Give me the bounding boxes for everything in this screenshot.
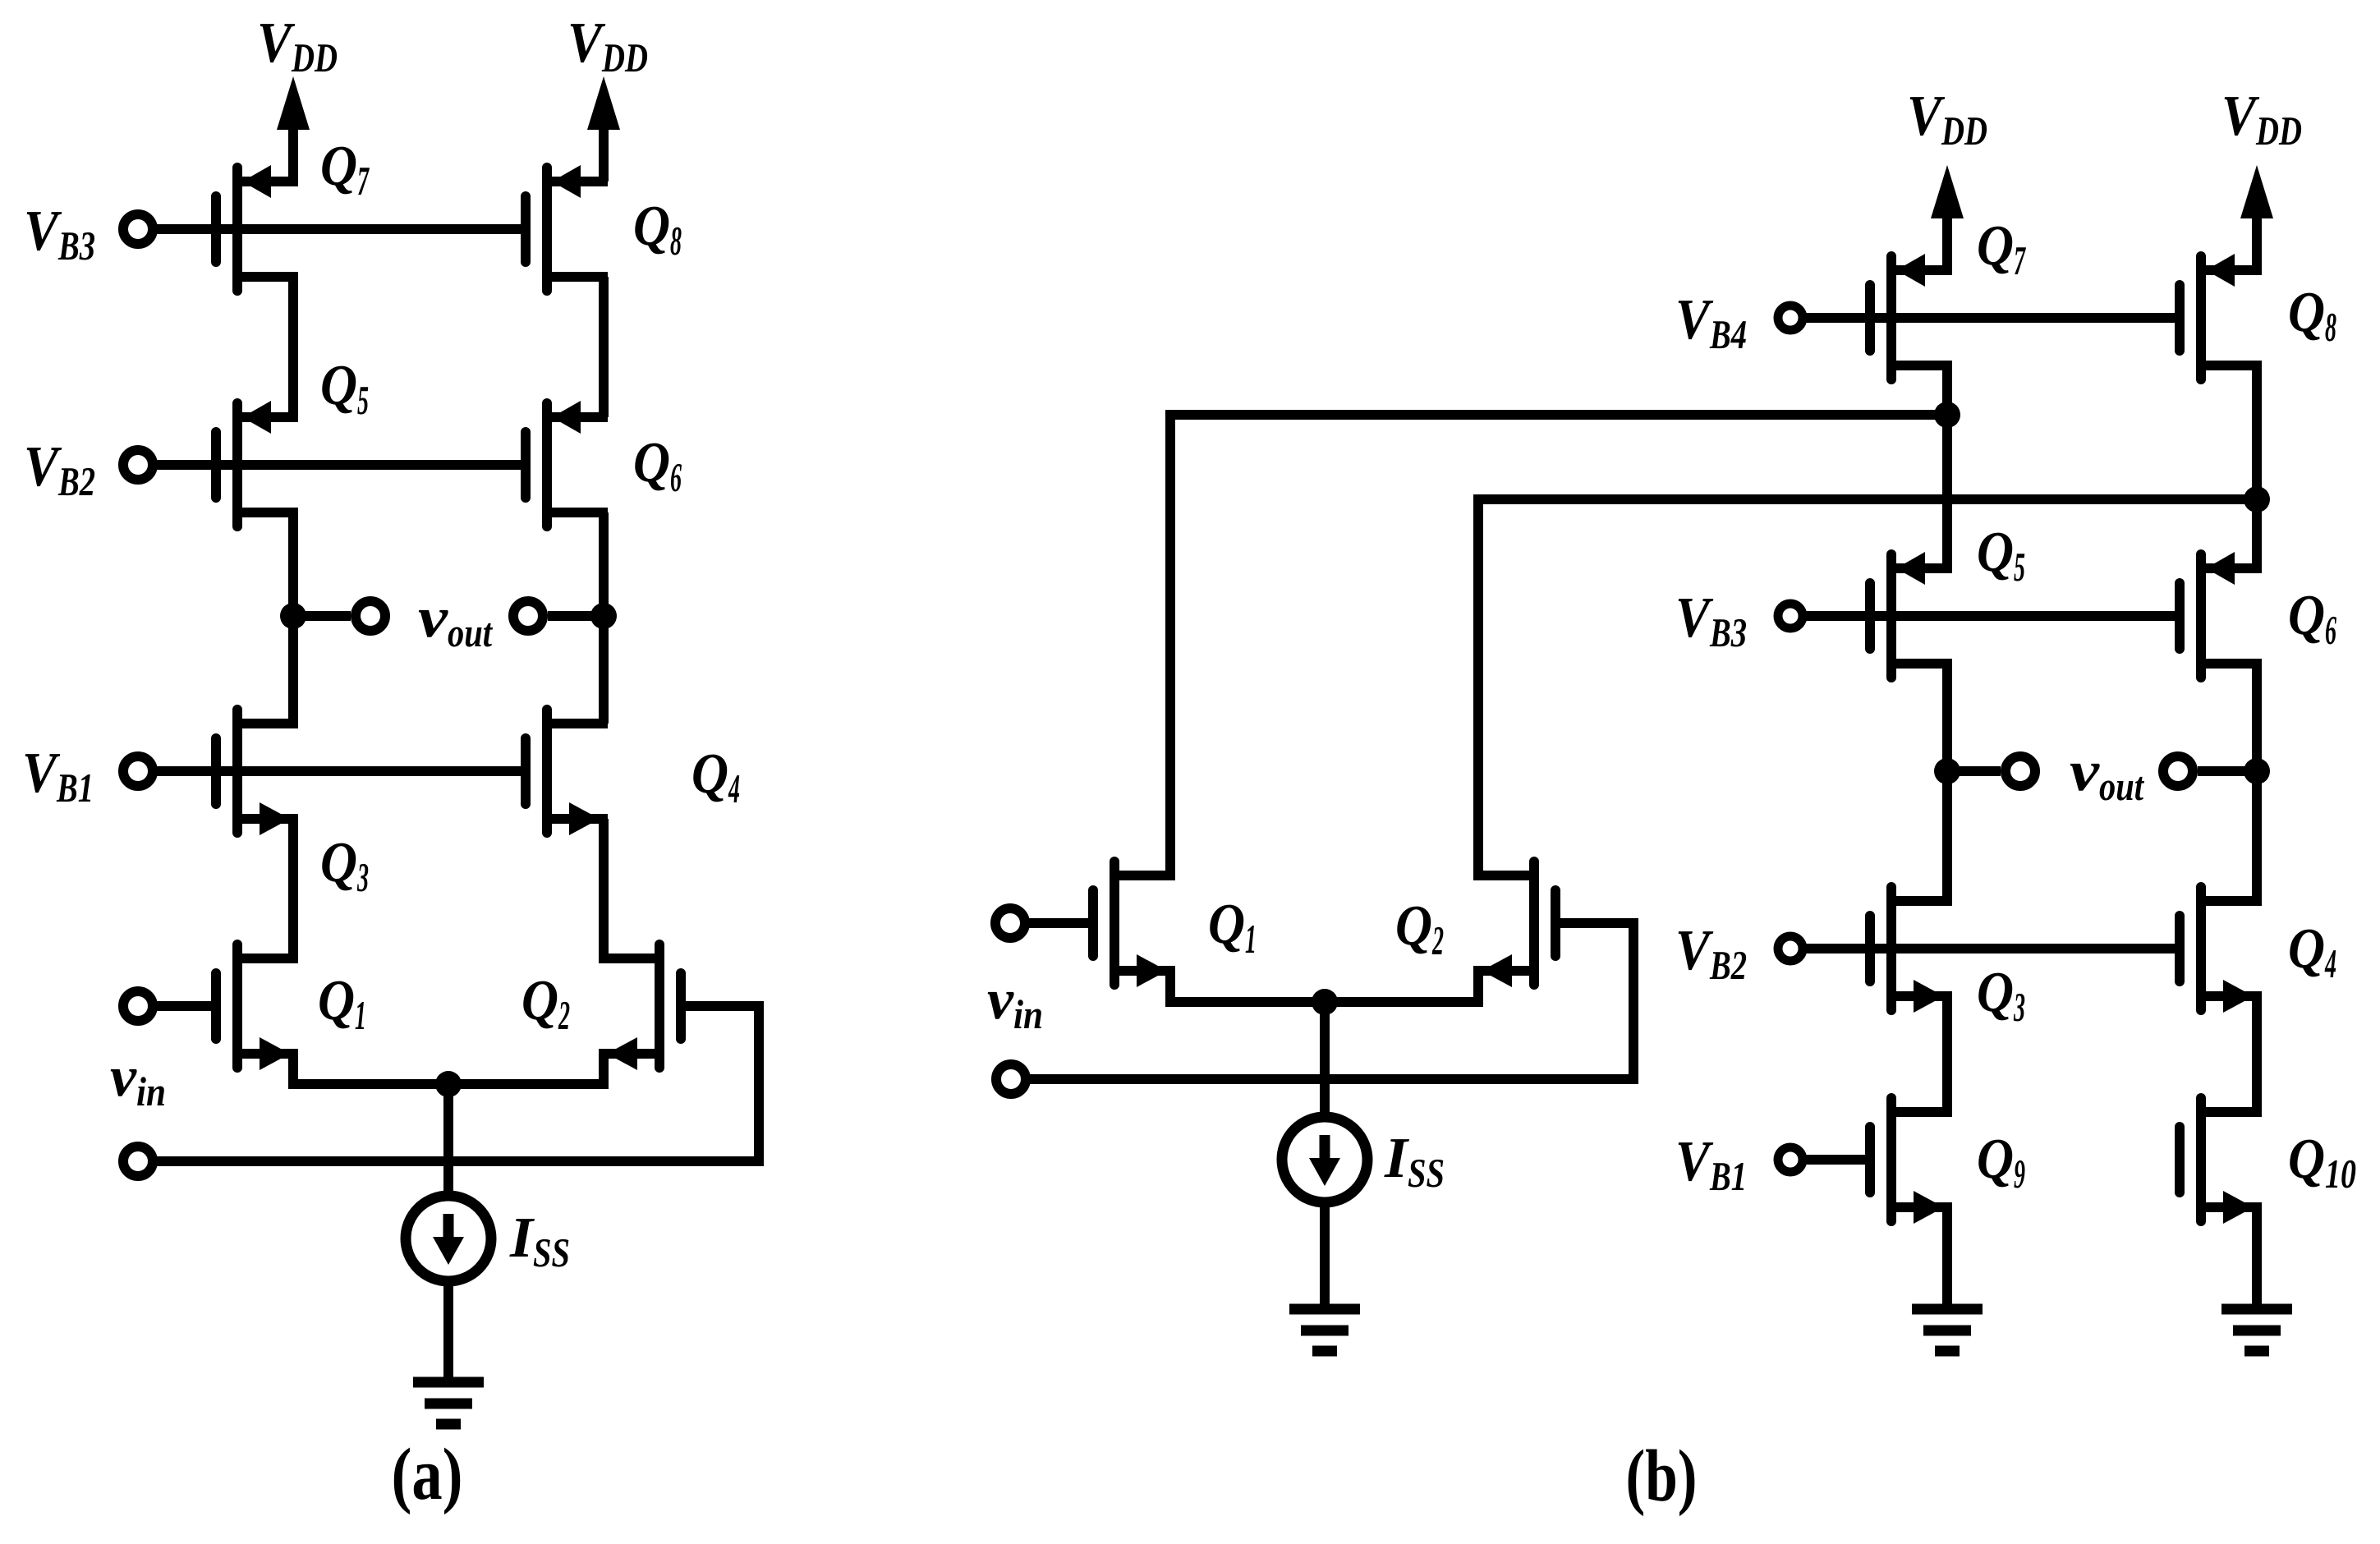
svg-text:Q1: Q1 <box>318 969 366 1038</box>
svg-text:Q10: Q10 <box>2288 1128 2356 1197</box>
wire VB1 to Q3/Q4 gates <box>153 766 521 776</box>
wire ISS to ground (b) <box>1320 1202 1330 1309</box>
wire Q5 drain to Q3 drain with vout tap (left rail a) <box>288 512 298 724</box>
wire vout left (b) <box>1947 766 2001 776</box>
svg-text:Q3: Q3 <box>1977 961 2025 1030</box>
wire VB3 to Q7/Q8 gates <box>153 224 521 234</box>
svg-text:VB4: VB4 <box>1675 288 1747 357</box>
port vin+ (a) <box>123 991 153 1021</box>
port vout left (b) <box>2006 756 2035 786</box>
transistor Q4 (NMOS) <box>526 710 608 835</box>
ground (a) <box>413 1382 484 1424</box>
wire vout right (b) <box>2198 766 2257 776</box>
svg-text:VB1: VB1 <box>1675 1130 1747 1199</box>
svg-text:Q5: Q5 <box>1977 521 2025 590</box>
transistor Q2 (b) (NMOS, mirrored) <box>1473 862 1555 987</box>
port VB2 (a) <box>123 450 153 480</box>
svg-text:Q8: Q8 <box>2288 281 2336 350</box>
svg-text:Q7: Q7 <box>1977 214 2026 283</box>
svg-text:(a): (a) <box>392 1434 463 1515</box>
svg-text:vout: vout <box>2070 740 2145 809</box>
svg-text:VB3: VB3 <box>24 200 95 269</box>
node vout right (b) <box>2244 758 2270 784</box>
port vout right (b) <box>2163 756 2193 786</box>
transistor Q5 (b) (PMOS) <box>1870 552 1952 678</box>
wire vin+ to Q1 gate (b) <box>1025 918 1088 928</box>
wire Q4 source to Q10 drain (right rail b) <box>2252 996 2262 1112</box>
wire ISS to ground (a) <box>443 1281 453 1382</box>
transistor Q7 (b) (PMOS) <box>1870 254 1952 379</box>
current source ISS (b) <box>1282 1117 1367 1202</box>
transistor Q8 (PMOS) <box>526 165 608 291</box>
wire vin+ to Q1 gate <box>153 1001 211 1011</box>
power VDD symbol (b) left <box>1931 165 1964 270</box>
svg-text:vout: vout <box>418 586 494 655</box>
node vout left (b) <box>1934 758 1960 784</box>
node feedback B junction (b) <box>2244 486 2270 512</box>
transistor Q8 (b) (PMOS) <box>2180 254 2262 379</box>
wire VB4 to Q7/Q8 gates (b) <box>1805 313 2175 323</box>
port VB1 (a) <box>123 756 153 786</box>
svg-text:VDD: VDD <box>567 11 648 80</box>
svg-text:VB3: VB3 <box>1675 586 1747 655</box>
wire VB2 to Q3/Q4 gates (b) <box>1805 944 2175 954</box>
svg-text:Q1: Q1 <box>1208 893 1257 962</box>
wire Q8 drain to Q6 source (right rail a) <box>599 277 609 417</box>
transistor Q7 (PMOS) <box>216 165 298 291</box>
svg-text:VB1: VB1 <box>22 742 94 811</box>
transistor Q10 (b) (NMOS) <box>2180 1098 2262 1224</box>
wire Q6 drain to Q4 drain (right rail a) <box>599 512 609 724</box>
port VB3 (b) <box>1778 604 1803 628</box>
port vout left (a) <box>356 601 385 631</box>
svg-text:Q3: Q3 <box>320 831 369 900</box>
power VDD symbol (b) right <box>2240 165 2273 270</box>
wire tail: Q1/Q2 sources (a) <box>293 1054 604 1084</box>
wire Q5 drain to Q3 drain with vout tap (left rail b) <box>1942 664 1952 901</box>
wire Q7 drain to Q5 source (left rail a) <box>288 277 298 417</box>
transistor Q4 (b) (NMOS) <box>2180 887 2262 1013</box>
svg-text:Q2: Q2 <box>1395 894 1444 963</box>
node vout left (a) <box>280 603 306 629</box>
svg-text:VDD: VDD <box>2221 85 2302 154</box>
transistor Q3 (b) (NMOS) <box>1870 887 1952 1013</box>
wire tail: Q1/Q2 sources (b) <box>1170 971 1478 1002</box>
wire Q8 drain to Q6 source (right rail b) <box>2252 365 2262 568</box>
svg-text:Q9: Q9 <box>1977 1128 2025 1197</box>
node tail junction (a) <box>435 1071 462 1097</box>
transistor Q1 (b) (NMOS) <box>1093 862 1175 987</box>
svg-text:Q5: Q5 <box>320 354 369 423</box>
svg-text:(b): (b) <box>1626 1436 1698 1517</box>
wire Q3 source to Q9 drain (left rail b) <box>1942 996 1952 1112</box>
wire Q10 source to ground (b) <box>2252 1207 2262 1309</box>
wire feedback from Q1 drain to Q7/Q5 rail (b) <box>1170 415 1947 875</box>
port VB4 (b) <box>1778 306 1803 330</box>
wire VB2 to Q5/Q6 gates <box>153 460 521 470</box>
wire VB1 to Q9 gate (b) <box>1805 1155 1865 1165</box>
svg-text:Q4: Q4 <box>691 742 740 811</box>
svg-text:VDD: VDD <box>257 11 338 80</box>
svg-text:Q4: Q4 <box>2288 917 2336 986</box>
wire feedback from Q2 drain to Q8/Q6 rail (b) <box>1478 499 2257 875</box>
svg-text:Q7: Q7 <box>320 135 370 204</box>
port vin- (a) <box>123 1147 153 1176</box>
svg-text:Q8: Q8 <box>633 195 682 264</box>
wire vout right (a) <box>548 611 604 621</box>
transistor Q2 (NMOS, mirrored) <box>599 944 681 1070</box>
transistor Q1 (NMOS) <box>216 944 298 1070</box>
power VDD symbol (a) left <box>277 76 310 182</box>
svg-text:ISS: ISS <box>509 1206 570 1275</box>
svg-text:VB2: VB2 <box>24 435 95 504</box>
svg-text:VB2: VB2 <box>1675 919 1747 988</box>
port VB3 (a) <box>123 214 153 244</box>
wire Q3 source to Q1 drain (left rail a) <box>288 819 298 958</box>
wire tail to ISS (b) <box>1320 1002 1330 1118</box>
transistor Q6 (PMOS) <box>526 401 608 526</box>
transistor Q3 (NMOS) <box>216 710 298 835</box>
node tail junction (b) <box>1312 989 1338 1015</box>
port vin+ (b) <box>995 908 1025 938</box>
svg-text:VDD: VDD <box>1907 85 1987 154</box>
transistor Q5 (PMOS) <box>216 401 298 526</box>
wire Q7 drain to Q5 source (left rail b) <box>1942 365 1952 568</box>
ground below ISS (b) <box>1289 1309 1360 1351</box>
wire Q6 drain to Q4 drain (right rail b) <box>2252 664 2262 901</box>
port vin- (b) <box>996 1064 1026 1094</box>
wire tail to ISS (a) <box>443 1084 453 1196</box>
svg-text:vin: vin <box>110 1045 166 1114</box>
svg-text:Q6: Q6 <box>2288 584 2336 653</box>
port VB2 (b) <box>1778 936 1803 961</box>
svg-text:vin: vin <box>987 968 1043 1037</box>
wire vin- to Q2 gate <box>153 1006 759 1161</box>
svg-text:Q2: Q2 <box>521 969 570 1038</box>
transistor Q6 (b) (PMOS) <box>2180 552 2262 678</box>
node vout right (a) <box>590 603 617 629</box>
transistor Q9 (b) (NMOS) <box>1870 1098 1952 1224</box>
wire Q9 source to ground (b) <box>1942 1207 1952 1309</box>
power VDD symbol (a) right <box>587 76 620 182</box>
wire VB3 to Q5/Q6 gates (b) <box>1805 611 2175 621</box>
wire vout left (a) <box>293 611 351 621</box>
wire Q4 source to Q2 drain (right rail a) <box>599 819 609 958</box>
port vout right (a) <box>513 601 543 631</box>
current source ISS (a) <box>406 1196 491 1281</box>
svg-text:Q6: Q6 <box>633 431 682 500</box>
ground below Q10 (b) <box>2221 1309 2292 1351</box>
wire vin- to Q2 gate (b) <box>1026 923 1633 1079</box>
node feedback A junction (b) <box>1934 402 1960 428</box>
svg-text:ISS: ISS <box>1384 1127 1445 1196</box>
ground below Q9 (b) <box>1912 1309 1983 1351</box>
port VB1 (b) <box>1778 1147 1803 1172</box>
